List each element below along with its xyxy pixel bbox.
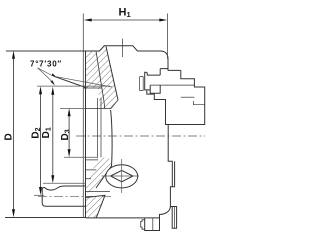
svg-text:D1: D1 — [41, 127, 53, 138]
svg-text:D: D — [4, 133, 15, 140]
svg-text:D3: D3 — [60, 129, 72, 140]
svg-text:7°7′30″: 7°7′30″ — [30, 60, 62, 69]
svg-text:H1: H1 — [119, 7, 131, 20]
